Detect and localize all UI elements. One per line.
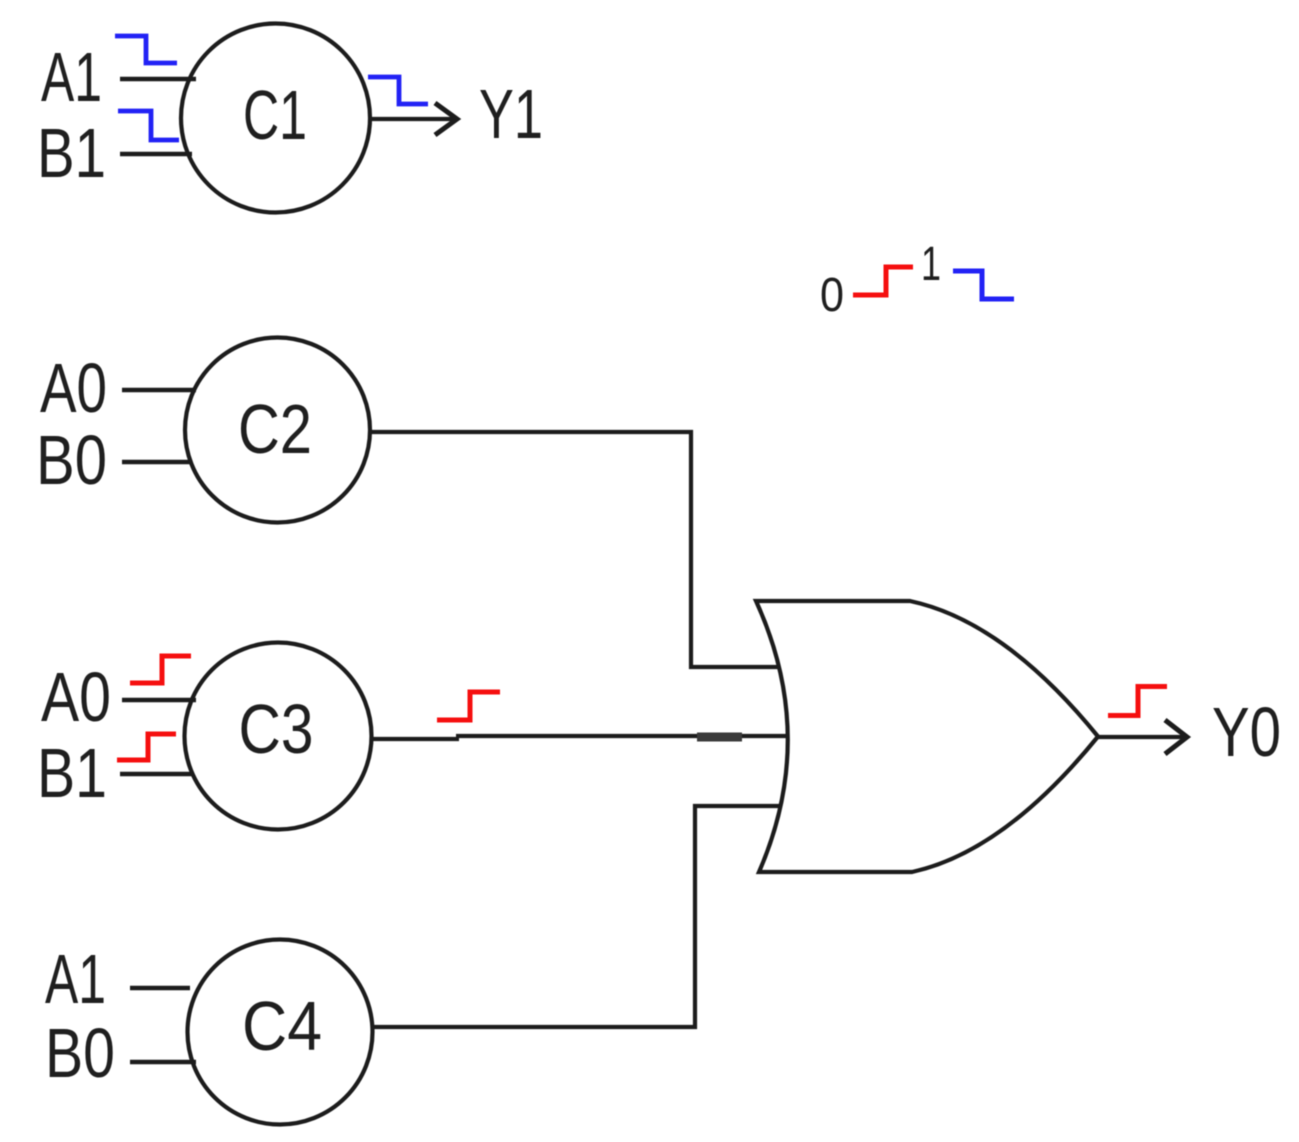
svg-text:1: 1 — [921, 238, 941, 291]
svg-text:B0: B0 — [45, 1014, 115, 1092]
svg-text:A0: A0 — [40, 349, 107, 427]
svg-text:C2: C2 — [238, 390, 312, 468]
svg-text:Y1: Y1 — [479, 75, 543, 153]
svg-text:B0: B0 — [36, 421, 107, 499]
svg-text:A0: A0 — [41, 658, 111, 736]
svg-text:B1: B1 — [37, 734, 107, 812]
svg-text:B1: B1 — [37, 114, 106, 192]
svg-text:0: 0 — [820, 269, 844, 322]
svg-text:C4: C4 — [242, 987, 322, 1065]
svg-text:A1: A1 — [45, 940, 106, 1018]
svg-text:A1: A1 — [41, 38, 102, 116]
svg-text:C3: C3 — [239, 690, 314, 768]
svg-text:Y0: Y0 — [1212, 693, 1281, 771]
svg-text:C1: C1 — [243, 76, 307, 154]
